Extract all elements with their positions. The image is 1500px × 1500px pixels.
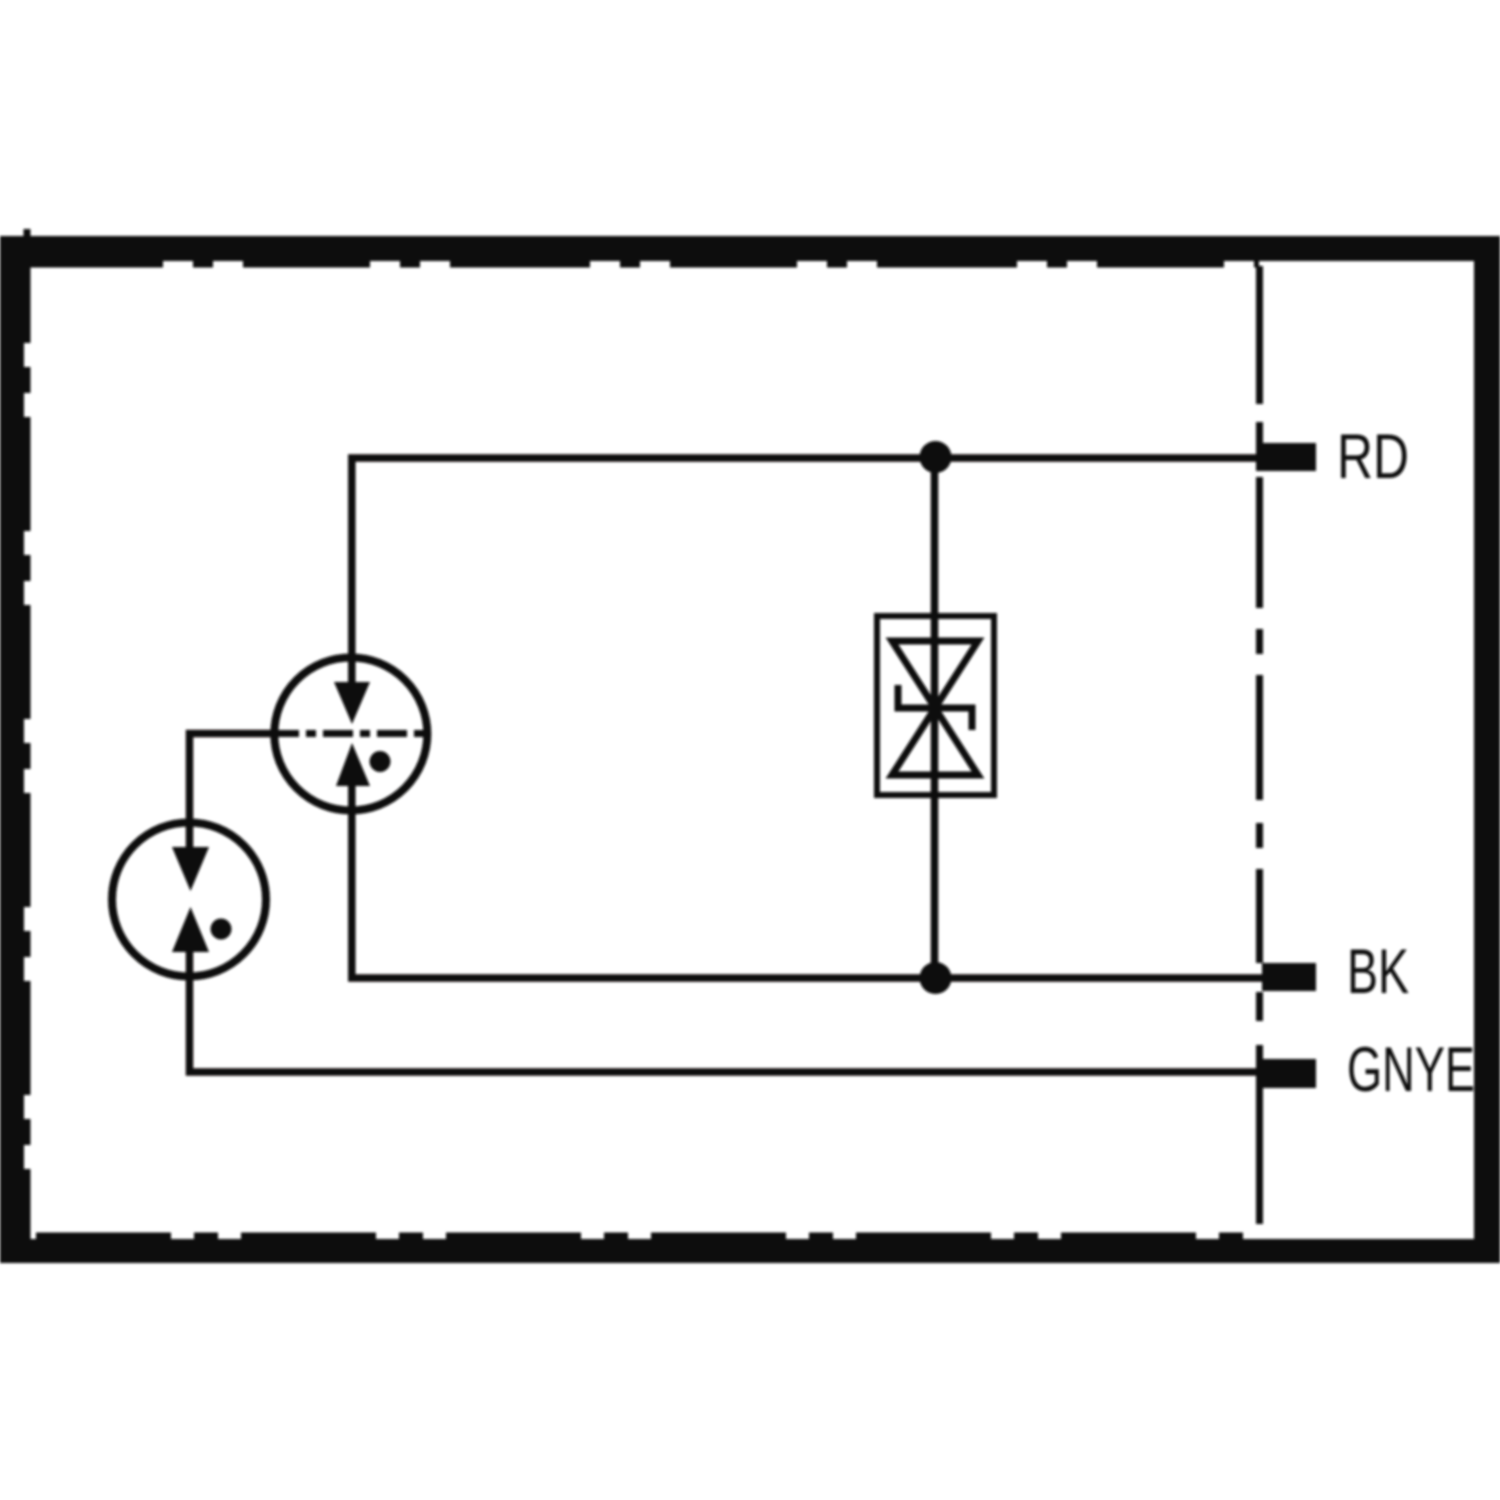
svg-text:GNYE: GNYE xyxy=(1347,1035,1475,1105)
svg-text:RD: RD xyxy=(1337,422,1409,492)
svg-text:BK: BK xyxy=(1347,937,1409,1007)
